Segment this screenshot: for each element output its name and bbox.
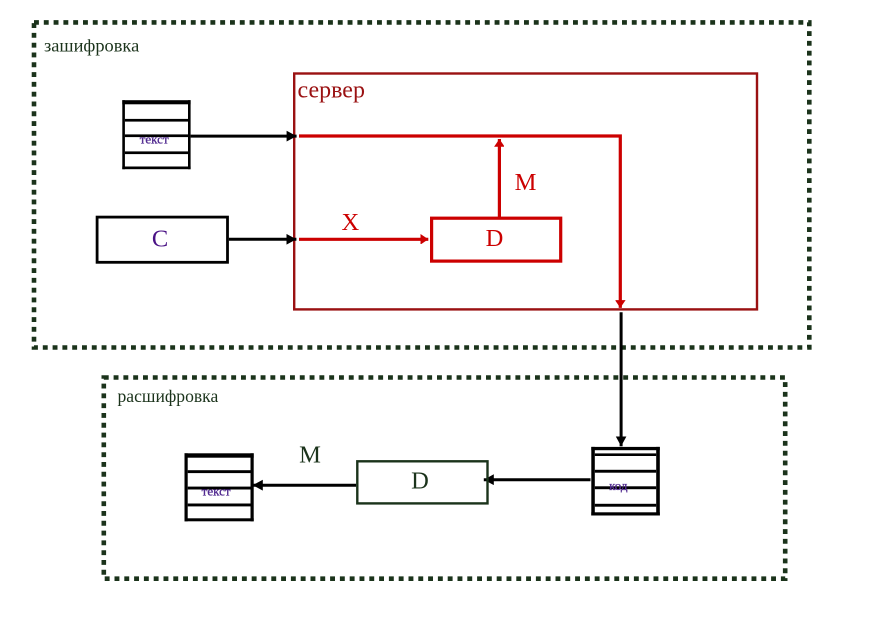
svg-text:M: M — [299, 442, 321, 469]
wire: M arrow up from D to top line (red) — [498, 139, 501, 218]
wire: код to D (black arrow, pointing left) — [484, 478, 591, 481]
label: M (red, in server) — [515, 169, 537, 196]
document symbol: код — [591, 447, 660, 516]
svg-text:код: код — [609, 478, 628, 493]
label: зашифровка — [44, 36, 139, 56]
svg-text:сервер: сервер — [298, 78, 365, 104]
wire: server output down to код (black arrow) — [620, 312, 623, 446]
svg-text:расшифровка: расшифровка — [118, 386, 219, 406]
box: C — [97, 217, 227, 262]
wire: X arrow from server edge to D (red) — [299, 238, 428, 241]
dashed box: encryption section (зашифровка) — [34, 22, 809, 347]
svg-text:X: X — [342, 209, 360, 236]
label: код — [609, 478, 628, 493]
document symbol: текст (top input) — [122, 100, 190, 169]
label: D (dark green) — [411, 467, 429, 494]
svg-text:M: M — [515, 169, 537, 196]
label: D (red) — [486, 225, 504, 252]
label: M (dark green, decryption) — [299, 442, 321, 469]
svg-text:C: C — [152, 226, 168, 253]
label: текст (bottom) — [202, 483, 231, 498]
box: D (red, in server) — [432, 218, 561, 261]
wire: D to текст (black arrow, pointing left) — [253, 484, 356, 487]
box: сервер (server) — [294, 74, 757, 310]
wire: C to сервер (black arrow) — [229, 238, 297, 241]
label: C — [152, 226, 168, 253]
label: текст (top) — [140, 131, 169, 146]
svg-text:D: D — [486, 225, 504, 252]
label: расшифровка — [118, 386, 219, 406]
svg-text:D: D — [411, 467, 429, 494]
svg-text:текст: текст — [202, 483, 231, 498]
svg-text:зашифровка: зашифровка — [44, 36, 139, 56]
wire: red path across server and down (arrow at server bottom) — [299, 136, 620, 308]
label: X (red) — [342, 209, 360, 236]
label: сервер — [298, 78, 365, 104]
dashed box: decryption section (расшифровка) — [104, 378, 785, 579]
document symbol: текст (bottom output) — [185, 453, 254, 521]
wire: текст to сервер (black arrow) — [191, 135, 297, 138]
box: D (dark green, decryption) — [357, 461, 487, 503]
svg-text:текст: текст — [140, 131, 169, 146]
